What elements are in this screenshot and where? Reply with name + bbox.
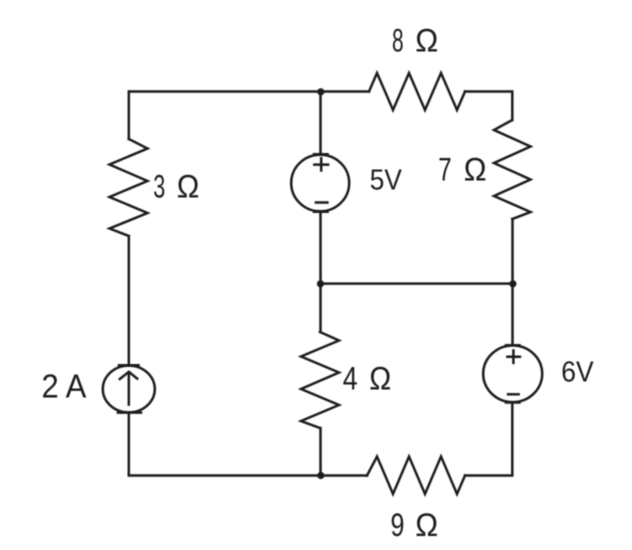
voltage source 6V top terminal tick	[506, 344, 520, 347]
node D (bottom middle junction)	[317, 472, 324, 479]
wire 9 Ohm right end to bottom-right corner up to 6V source	[465, 403, 512, 476]
voltage source 5V (circle)	[291, 155, 349, 212]
label 7 Ohm value	[438, 152, 486, 188]
node C (left middle junction)	[317, 280, 324, 287]
wire 6V source top to node B	[511, 284, 514, 346]
wire 7 Ohm bottom to right-middle node	[511, 219, 514, 284]
svg-text:7: 7	[438, 152, 451, 188]
wire middle horizontal (node C to node B)	[321, 282, 513, 285]
current source 2A arrow shaft	[128, 373, 131, 405]
resistor 3 Ohm (vertical, left)	[110, 139, 148, 236]
svg-text:9: 9	[391, 507, 405, 543]
resistor 7 Ohm (vertical, right)	[494, 120, 531, 219]
wire 2A source bottom to bottom-left corner to bottom node	[129, 413, 367, 476]
voltage source 6V plus sign	[507, 351, 520, 363]
current source 2A (circle)	[103, 366, 155, 413]
svg-text:Ω: Ω	[464, 152, 487, 188]
wire 8 Ohm right end to top-right corner down to 7 Ohm	[465, 92, 512, 121]
wire 4 Ohm bottom to node D	[319, 428, 322, 476]
voltage source 6V minus sign	[508, 393, 518, 396]
svg-text:3: 3	[153, 168, 165, 204]
wire top-left horizontal (top-left corner to top node)	[129, 92, 369, 140]
svg-text:6V: 6V	[561, 356, 593, 388]
label 3 Ohm value	[153, 168, 199, 204]
voltage source 6V (circle)	[483, 346, 542, 403]
voltage source 5V minus sign	[316, 201, 328, 204]
voltage source 6V bottom terminal tick	[506, 401, 520, 404]
svg-text:Ω: Ω	[369, 360, 391, 396]
voltage source 5V plus sign	[314, 158, 328, 170]
voltage source 5V top terminal tick	[314, 153, 328, 156]
svg-text:2 A: 2 A	[42, 369, 87, 406]
svg-text:Ω: Ω	[415, 507, 438, 543]
label 4 Ohm value	[343, 360, 392, 396]
svg-text:4: 4	[343, 360, 358, 396]
svg-text:Ω: Ω	[177, 168, 200, 204]
current source 2A bottom terminal tick	[118, 411, 141, 414]
current source 2A top terminal tick	[119, 364, 139, 367]
label 9 Ohm value	[391, 507, 439, 543]
resistor 8 Ohm (horizontal, top)	[369, 73, 465, 110]
resistor 9 Ohm (horizontal, bottom)	[367, 457, 465, 495]
voltage source 5V bottom terminal tick	[314, 211, 328, 214]
svg-text:8: 8	[392, 23, 404, 59]
svg-text:5V: 5V	[370, 165, 402, 197]
wire node A stub down to 5V source top	[319, 92, 322, 155]
svg-text:Ω: Ω	[415, 23, 438, 59]
resistor 4 Ohm (vertical, middle)	[301, 332, 339, 428]
node B (right middle junction)	[509, 280, 516, 287]
label 8 Ohm value	[392, 23, 438, 59]
current source 2A arrow head	[120, 372, 137, 379]
wire 5V source bottom to node C	[319, 212, 322, 284]
wire node C down to 4 Ohm top	[319, 284, 322, 332]
node A (top middle junction)	[317, 88, 324, 95]
wire 3 Ohm bottom to 2A source top	[128, 236, 131, 365]
